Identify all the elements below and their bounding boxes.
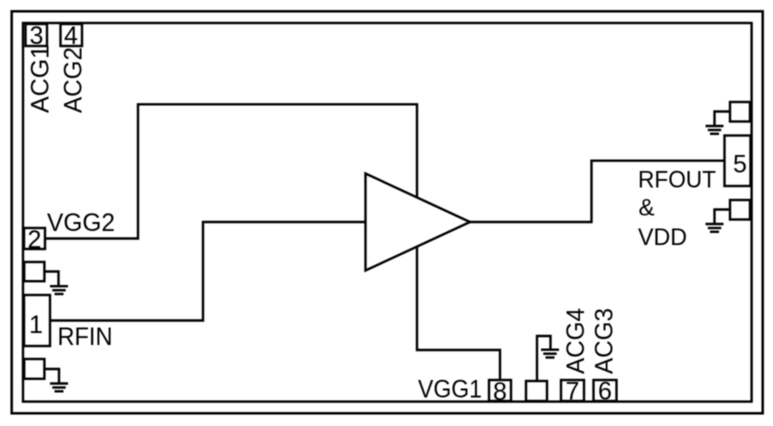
- wire stub to ground (right lower): [715, 210, 731, 224]
- svg-text:2: 2: [28, 226, 42, 254]
- svg-text:ACG3: ACG3: [591, 308, 619, 374]
- stub box below pin2: [24, 262, 44, 281]
- pin 8: [489, 378, 511, 406]
- label ACG4: [562, 308, 590, 374]
- svg-text:8: 8: [493, 378, 507, 406]
- wire stub to ground (right upper): [715, 112, 731, 126]
- label ACG2: [60, 47, 88, 113]
- wire RFIN: pin1 to amplifier input: [50, 222, 366, 321]
- svg-text:5: 5: [733, 151, 747, 179]
- stub box below pin1: [24, 359, 44, 379]
- wire VGG1: amplifier bottom to pin8: [417, 246, 500, 381]
- label VGG1: [418, 376, 482, 404]
- pin 6: [594, 378, 617, 406]
- pin 2: [24, 226, 45, 254]
- label ACG3: [591, 308, 619, 374]
- stub box above pin5: [730, 102, 750, 122]
- wire RFOUT: amplifier output to pin5: [469, 161, 725, 222]
- ground (right upper): [706, 126, 724, 134]
- svg-text:6: 6: [598, 378, 612, 406]
- svg-text:&: &: [639, 195, 655, 222]
- wire stub to ground (left upper): [45, 272, 59, 286]
- svg-text:VDD: VDD: [638, 224, 687, 251]
- svg-text:VGG1: VGG1: [418, 376, 482, 404]
- svg-text:RFIN: RFIN: [58, 323, 113, 351]
- svg-text:ACG1: ACG1: [27, 45, 55, 113]
- label RFIN: [58, 323, 113, 351]
- stub box on bottom edge: [526, 381, 547, 401]
- svg-text:1: 1: [29, 311, 43, 339]
- ground (bottom): [541, 350, 559, 358]
- wire VGG2: pin2 to amplifier top: [45, 104, 417, 238]
- pin 3: [26, 22, 48, 50]
- label RFOUT & VDD: [638, 167, 716, 252]
- label ACG1: [27, 45, 55, 113]
- wire stub to ground (bottom): [537, 336, 551, 381]
- wire stub to ground (left lower): [45, 369, 60, 383]
- svg-text:VGG2: VGG2: [47, 209, 115, 237]
- svg-text:ACG2: ACG2: [60, 47, 88, 113]
- pin 7: [561, 378, 584, 406]
- label VGG2: [47, 209, 115, 237]
- stub box below pin5: [730, 200, 750, 220]
- svg-text:4: 4: [64, 22, 78, 50]
- svg-text:ACG4: ACG4: [562, 308, 590, 374]
- ground (left upper): [50, 286, 68, 294]
- pin 1: [24, 295, 50, 346]
- svg-text:7: 7: [566, 378, 580, 406]
- svg-text:RFOUT: RFOUT: [638, 167, 716, 194]
- pin 5: [725, 136, 751, 187]
- pin 4: [61, 22, 83, 50]
- ground (left lower): [50, 384, 68, 392]
- amplifier A1: [366, 174, 471, 271]
- ground (right lower): [706, 224, 724, 232]
